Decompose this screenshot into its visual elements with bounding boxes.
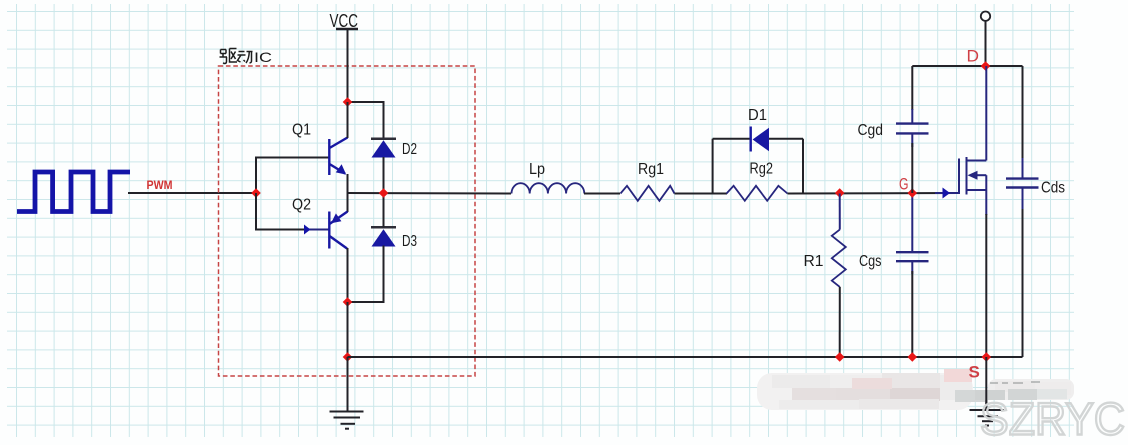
svg-text:Lp: Lp: [529, 161, 545, 178]
resistor Rg1: [621, 186, 675, 201]
svg-text:D3: D3: [402, 233, 417, 250]
wire D1 branch left vertical: [712, 139, 714, 194]
driver IC box (dashed red): [219, 66, 476, 376]
node VCC/collector junction: [343, 97, 353, 107]
node D: [981, 61, 991, 71]
svg-text:D1: D1: [748, 107, 767, 124]
bottom rail: [348, 356, 1023, 358]
svg-text:PWM: PWM: [147, 178, 173, 192]
wire Q1 collector up: [347, 102, 349, 138]
node ground rail junction: [343, 352, 353, 362]
wire top rail to D2 column: [348, 102, 384, 139]
diode D1: [751, 127, 769, 152]
wire S down: [985, 357, 987, 410]
svg-text:Q2: Q2: [292, 197, 311, 214]
watermark mosaic gray row: [955, 390, 985, 402]
wire terminal to D: [985, 21, 987, 66]
wire D3 down to corner: [348, 246, 384, 303]
wire down to ground rail: [347, 302, 349, 357]
svg-text:D2: D2: [402, 141, 417, 158]
svg-text:Cgd: Cgd: [858, 122, 884, 139]
wire Rg1 to Rg2: [675, 193, 728, 195]
wire Q1 base: [256, 158, 329, 194]
svg-text:VCC: VCC: [330, 11, 359, 31]
wire D1 branch right vertical: [802, 139, 804, 194]
wire output rail left part: [348, 192, 512, 195]
MOSFET: [959, 66, 986, 215]
capacitor Cds: [1022, 66, 1024, 159]
transistor Q2 (PNP): [329, 212, 347, 249]
wire output to D3: [383, 193, 385, 228]
resistor R1: [839, 194, 841, 230]
svg-text:S: S: [969, 363, 980, 382]
svg-text:R1: R1: [804, 253, 824, 270]
wire MOSFET source down: [985, 214, 987, 357]
diode D2: [371, 139, 396, 158]
node R1 bottom junction: [835, 352, 845, 362]
svg-text:Rg1: Rg1: [638, 161, 664, 178]
watermark mosaic left block: [757, 369, 973, 410]
node S: [982, 352, 992, 362]
驱动IC label: [220, 49, 253, 64]
wire Rg2 to G: [788, 192, 960, 195]
node output/diode junction: [379, 188, 389, 198]
resistor Rg2: [727, 186, 788, 201]
node PWM junction: [251, 188, 261, 198]
svg-text:Rg2: Rg2: [750, 161, 774, 178]
node Cgs bottom junction: [908, 352, 918, 362]
wire PWM input to junction: [128, 192, 256, 194]
svg-text:D: D: [967, 47, 980, 66]
capacitor Cgd: [911, 66, 913, 110]
svg-text:IC: IC: [254, 49, 272, 65]
arrow on Q2 base wire: [305, 229, 329, 231]
svg-text:Q1: Q1: [292, 122, 311, 139]
svg-text:Cgs: Cgs: [859, 253, 882, 270]
wire Q2 base: [256, 193, 329, 230]
inductor Lp: [512, 183, 585, 193]
transistor Q1 (NPN): [329, 138, 347, 176]
PWM source waveform: [17, 172, 130, 212]
svg-text:SZRYC: SZRYC: [980, 394, 1125, 445]
node G: [908, 188, 918, 198]
wire D rail: [912, 65, 1022, 67]
capacitor Cgs: [911, 193, 913, 252]
wire D1 branch top right: [769, 138, 803, 140]
wire VCC down: [347, 29, 349, 102]
terminal circle: [981, 12, 990, 21]
arrow on gate wire: [935, 192, 959, 194]
ground (driver): [330, 357, 364, 429]
wire D1 branch top left: [713, 138, 750, 140]
VCC power symbol: [336, 28, 358, 30]
watermark mosaic right block: [988, 379, 1074, 400]
svg-text:Cds: Cds: [1041, 180, 1065, 197]
diode D3: [371, 227, 396, 246]
wire Q1 emitter / Q2 emitter vertical: [347, 174, 349, 212]
svg-text:G: G: [899, 176, 909, 194]
ground (S): [970, 390, 1005, 426]
node R1 branch junction: [835, 188, 845, 198]
node Q2 collector / diode column: [343, 297, 353, 307]
wire Lp to Rg1: [584, 193, 620, 195]
wire D2 to output: [383, 157, 385, 193]
wire Q2 collector down: [347, 248, 349, 302]
